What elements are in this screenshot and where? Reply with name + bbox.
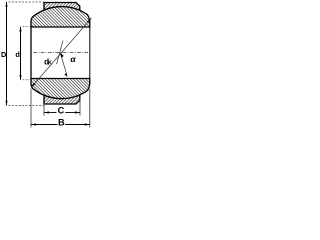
- svg-text:C: C: [58, 105, 65, 115]
- svg-text:α: α: [70, 54, 76, 64]
- svg-text:D: D: [1, 50, 6, 59]
- svg-text:K: K: [48, 61, 52, 67]
- svg-text:d: d: [15, 50, 19, 59]
- svg-text:B: B: [58, 117, 65, 127]
